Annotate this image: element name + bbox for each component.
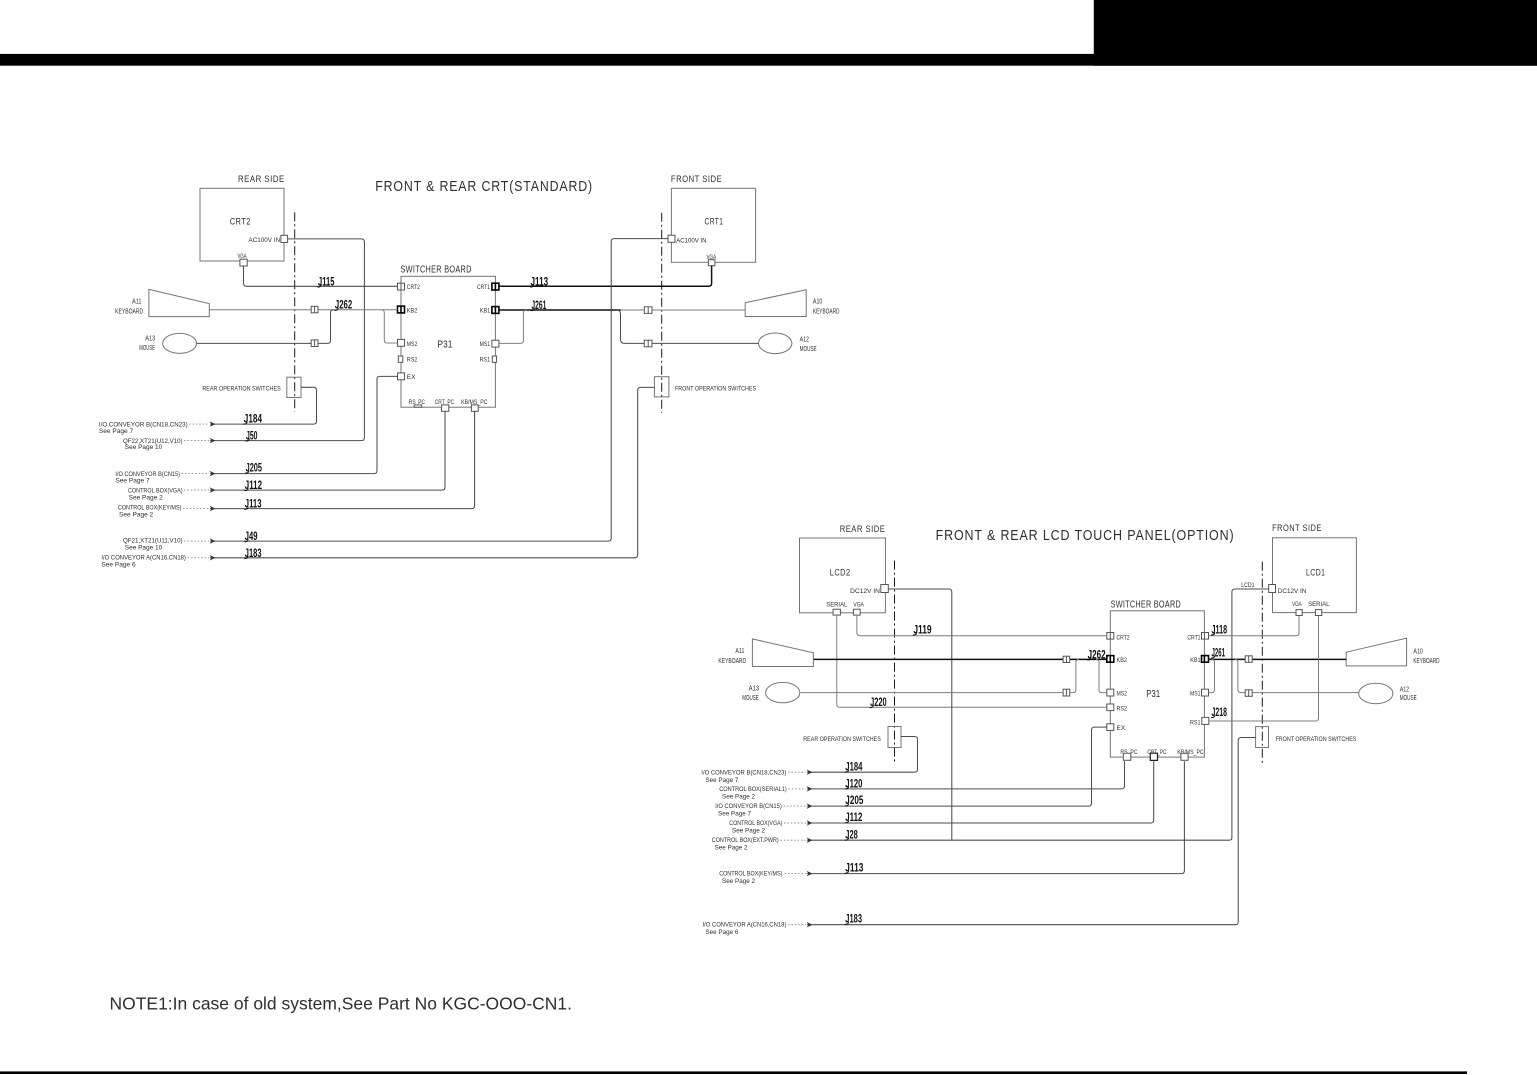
title block black band — [0, 54, 1537, 66]
svg-text:REAR OPERATION SWITCHES: REAR OPERATION SWITCHES — [803, 736, 881, 743]
svg-text:KEYBOARD: KEYBOARD — [813, 309, 840, 316]
boundary connector rear mouse — [1063, 689, 1070, 696]
pin connector MS2 — [1107, 689, 1114, 696]
svg-text:CONTROL BOX(KEY/MS): CONTROL BOX(KEY/MS) — [118, 504, 181, 511]
svg-text:See Page 2: See Page 2 — [732, 827, 765, 834]
svg-text:A11: A11 — [132, 299, 142, 306]
pin connector CRT1 — [1202, 633, 1209, 640]
svg-text:FRONT SIDE: FRONT SIDE — [1272, 523, 1322, 534]
svg-text:KEYBOARD: KEYBOARD — [1413, 658, 1439, 665]
pin connector EX — [1107, 724, 1114, 731]
svg-text:A10: A10 — [813, 299, 823, 306]
svg-text:See Page 7: See Page 7 — [705, 777, 738, 784]
svg-text:FRONT & REAR CRT(STANDARD): FRONT & REAR CRT(STANDARD) — [375, 179, 593, 195]
svg-text:QF21,XT21(U11,V10): QF21,XT21(U11,V10) — [123, 537, 183, 544]
wire J120 to RS_PC — [807, 761, 1125, 789]
row label QF22,XT21(U12,V10) See Page 10 — [123, 438, 209, 451]
chain line front boundary — [661, 213, 663, 413]
bottom frame line — [0, 1071, 1467, 1074]
svg-text:See Page 10: See Page 10 — [125, 444, 163, 451]
wire J261 switcher KB1 to keyboard A10 — [1209, 658, 1347, 660]
svg-text:MOUSE: MOUSE — [742, 695, 759, 702]
svg-text:AC100V IN: AC100V IN — [676, 238, 707, 245]
svg-text:CRT1: CRT1 — [705, 217, 724, 228]
svg-text:See Page 2: See Page 2 — [119, 511, 154, 518]
CRT1 connector AC100V IN — [668, 235, 675, 242]
pin connector RS_PC — [1123, 753, 1131, 760]
LCD1 connector SERIAL — [1315, 610, 1321, 616]
svg-text:SERIAL: SERIAL — [826, 602, 847, 609]
svg-text:See Page 2: See Page 2 — [715, 845, 748, 852]
CRT1 connector VGA — [708, 260, 715, 266]
pin connector RS1 — [1202, 717, 1209, 724]
svg-text:MS1: MS1 — [1190, 691, 1201, 698]
row label I/O CONVEYOR B(CN18,CN23) See Page 7 — [99, 421, 209, 435]
svg-text:CRT2: CRT2 — [230, 217, 251, 228]
LCD2 connector DC12V IN — [881, 585, 889, 593]
svg-text:CONTROL BOX(KEY/MS): CONTROL BOX(KEY/MS) — [719, 871, 782, 878]
row label CONTROL BOX(SERIAL1) See Page 2 — [719, 786, 806, 800]
pin connector CRT1 — [492, 283, 499, 290]
svg-text:P31: P31 — [1146, 688, 1160, 700]
row label QF21,XT21(U11,V10) See Page 10 — [123, 537, 209, 551]
mouse A12 — [759, 333, 792, 354]
rear operation switches box — [287, 377, 301, 397]
wire split to mouse A12 — [617, 310, 759, 343]
svg-text:See Page 6: See Page 6 — [705, 929, 738, 936]
monitor CRT1 box — [671, 188, 755, 262]
svg-text:CONTROL BOX(VGA): CONTROL BOX(VGA) — [128, 487, 183, 494]
wire J119 LCD2 VGA to switcher CRT2 — [857, 615, 1107, 636]
svg-text:FRONT OPERATION SWITCHES: FRONT OPERATION SWITCHES — [675, 386, 757, 393]
svg-text:A12: A12 — [1400, 687, 1409, 694]
pin connector MS1 — [1202, 689, 1209, 696]
svg-text:RS2: RS2 — [407, 357, 418, 364]
pin connector CRT_PC — [1150, 753, 1157, 760]
svg-text:AC100V IN: AC100V IN — [249, 237, 281, 244]
wire J205 to EX — [807, 727, 1107, 806]
wire J184 from rear operation switches — [210, 387, 317, 424]
svg-text:A13: A13 — [749, 686, 760, 693]
wire J28 row to LCD1 DC12V — [807, 589, 1269, 840]
svg-text:I/O CONVEYOR B(CN18,CN23): I/O CONVEYOR B(CN18,CN23) — [701, 769, 786, 776]
wire J113 to KB/MS_PC — [807, 761, 1184, 873]
wire J113 switcher CRT1 to CRT1 VGA — [499, 266, 712, 287]
pin connector KB2 — [398, 306, 405, 313]
wire J115 CRT2 VGA to switcher — [244, 266, 398, 286]
chain line front boundary — [1261, 562, 1263, 764]
CRT2 connector AC100V IN — [281, 235, 288, 242]
pin connector KB1 — [1202, 656, 1209, 663]
svg-text:KEYBOARD: KEYBOARD — [718, 658, 746, 665]
pin connector MS2 — [398, 339, 405, 346]
boundary connector front mouse — [644, 340, 652, 347]
wire mouse A12 branch — [1235, 659, 1359, 692]
title block black corner box — [1094, 0, 1537, 66]
svg-text:RS2: RS2 — [1117, 705, 1128, 712]
svg-text:CONTROL BOX(VGA): CONTROL BOX(VGA) — [729, 820, 782, 827]
svg-text:I/O CONVEYOR B(CN15): I/O CONVEYOR B(CN15) — [715, 803, 782, 810]
wire J205 from EX — [210, 376, 398, 473]
svg-text:RS1: RS1 — [1190, 720, 1201, 727]
boundary connector rear keyboard — [1063, 656, 1070, 662]
row label CONTROL BOX(VGA) See Page 2 — [729, 820, 806, 834]
svg-text:SWITCHER BOARD: SWITCHER BOARD — [401, 265, 472, 276]
keyboard A10 — [745, 290, 806, 317]
svg-text:MS1: MS1 — [480, 341, 491, 348]
wire J112 to CRT_PC — [807, 761, 1154, 823]
svg-text:CRT2: CRT2 — [407, 284, 420, 291]
wire J261 switcher KB1 to keyboard A10 — [499, 309, 621, 311]
arrowheads on rows — [807, 769, 813, 927]
svg-text:SERIAL: SERIAL — [1308, 601, 1330, 608]
svg-text:See Page 7: See Page 7 — [99, 428, 134, 435]
wire mouse A13 merge — [801, 659, 1079, 692]
svg-text:P31: P31 — [437, 339, 452, 351]
svg-text:A12: A12 — [800, 337, 809, 344]
wire split to MS2 — [381, 310, 397, 343]
chain line rear boundary — [894, 561, 896, 764]
svg-text:MOUSE: MOUSE — [1400, 695, 1417, 702]
LCD1 connector DC12V IN — [1269, 585, 1276, 593]
wire CRT2 AC100V IN down to J50 row — [210, 239, 364, 441]
svg-text:I/O CONVEYOR A(CN16,CN18): I/O CONVEYOR A(CN16,CN18) — [703, 922, 787, 929]
svg-text:See Page 2: See Page 2 — [722, 878, 755, 885]
wire J184 from rear operation switches — [807, 737, 918, 773]
row label CONTROL BOX(KEY/MS) See Page 2 — [118, 504, 209, 518]
svg-text:CRT2: CRT2 — [1117, 634, 1130, 641]
svg-text:SWITCHER BOARD: SWITCHER BOARD — [1111, 600, 1181, 611]
wire J112 from CRT_PC — [210, 411, 445, 490]
svg-text:MOUSE: MOUSE — [139, 345, 155, 352]
svg-text:KEYBOARD: KEYBOARD — [115, 308, 143, 315]
svg-text:A10: A10 — [1413, 648, 1423, 655]
row label CONTROL BOX(EXT.PWR) See Page 2 — [712, 837, 806, 851]
svg-text:See Page 10: See Page 10 — [125, 544, 163, 551]
svg-text:MOUSE: MOUSE — [800, 346, 817, 353]
wire J183 to front operation switches — [807, 738, 1256, 925]
keyboard A11 — [752, 639, 813, 667]
pin connector RS2 — [398, 356, 403, 362]
wire LCD2 DC12V branch down to J28 row — [888, 589, 952, 840]
row label I/O CONVEYOR B(CN15) See Page 7 — [115, 471, 209, 485]
svg-text:LCD1: LCD1 — [1306, 567, 1325, 578]
svg-text:See Page 7: See Page 7 — [718, 810, 751, 817]
monitor CRT2 box — [200, 188, 284, 261]
CRT2 connector VGA — [240, 259, 247, 266]
wire J49 to CRT1 AC100V IN — [210, 239, 668, 541]
LCD2 connector VGA — [853, 609, 860, 615]
svg-text:FRONT SIDE: FRONT SIDE — [671, 174, 722, 185]
svg-text:EX: EX — [1117, 725, 1126, 732]
svg-text:FRONT & REAR LCD TOUCH PANEL(O: FRONT & REAR LCD TOUCH PANEL(OPTION) — [936, 528, 1235, 544]
row label I/O CONVEYOR A(CN16,CN18) See Page 6 — [101, 555, 209, 569]
row label I/O CONVEYOR B(CN18,CN23) See Page 7 — [701, 769, 806, 784]
svg-text:REAR SIDE: REAR SIDE — [238, 174, 285, 185]
boundary connector rear keyboard — [311, 306, 318, 313]
svg-text:See Page 7: See Page 7 — [115, 478, 150, 485]
LCD2 connector SERIAL — [833, 609, 840, 615]
svg-text:KB1: KB1 — [480, 307, 491, 314]
svg-text:See Page 6: See Page 6 — [101, 561, 136, 568]
pin connector RS2 — [1107, 704, 1114, 711]
boundary connector rear mouse — [311, 340, 318, 347]
pin connector MS1 — [492, 340, 499, 347]
svg-text:CONTROL BOX(EXT.PWR): CONTROL BOX(EXT.PWR) — [712, 837, 779, 844]
svg-text:A13: A13 — [145, 335, 155, 342]
svg-text:See Page 2: See Page 2 — [722, 793, 755, 800]
svg-text:LCD1: LCD1 — [1241, 582, 1255, 589]
wire J113 from KB/MS_PC — [210, 411, 475, 509]
pin connector KB/MS_PC — [471, 405, 478, 411]
wire split to MS2 — [1096, 659, 1107, 692]
svg-text:VGA: VGA — [1292, 601, 1302, 608]
svg-text:REAR OPERATION SWITCHES: REAR OPERATION SWITCHES — [202, 386, 281, 393]
pin connector KB2 — [1107, 656, 1114, 663]
svg-text:MS2: MS2 — [1117, 691, 1128, 698]
svg-text:CONTROL BOX(SERIAL1): CONTROL BOX(SERIAL1) — [719, 786, 787, 793]
pin connector CRT2 — [398, 283, 405, 290]
mouse A13 — [163, 333, 197, 353]
svg-text:REAR SIDE: REAR SIDE — [840, 524, 886, 535]
panel LCD2 box — [800, 538, 886, 613]
wire MS1 branch — [1209, 659, 1215, 692]
keyboard A10 — [1346, 638, 1406, 666]
mouse A13 — [766, 682, 800, 702]
svg-text:FRONT OPERATION SWITCHES: FRONT OPERATION SWITCHES — [1276, 736, 1357, 743]
wire MS1 merge — [499, 310, 527, 343]
wire keyboard A11 to KB2 — [210, 309, 398, 311]
wire keyboard A11 to KB2 — [814, 658, 1107, 660]
svg-text:NOTE1:In case of old system,Se: NOTE1:In case of old system,See Part No … — [110, 994, 573, 1014]
svg-text:RS1: RS1 — [480, 357, 491, 364]
row label CONTROL BOX(VGA) See Page 2 — [128, 487, 209, 501]
svg-text:CRT1: CRT1 — [477, 284, 490, 291]
svg-text:KB1: KB1 — [1190, 657, 1201, 664]
front operation switches box — [1256, 727, 1269, 748]
svg-text:KB2: KB2 — [1117, 657, 1128, 664]
svg-text:DC12V IN: DC12V IN — [850, 588, 880, 595]
wire mouse A13 merge — [197, 310, 334, 344]
svg-text:CRT1: CRT1 — [1187, 634, 1200, 641]
front operation switches box — [654, 377, 669, 397]
svg-text:LCD2: LCD2 — [830, 568, 851, 579]
svg-text:VGA: VGA — [853, 602, 864, 609]
wire J118 switcher CRT1 to LCD1 VGA — [1209, 616, 1300, 636]
row label I/O CONVEYOR B(CN15) See Page 7 — [715, 803, 806, 817]
row label CONTROL BOX(KEY/MS) See Page 2 — [719, 871, 806, 885]
panel LCD1 box — [1273, 538, 1357, 613]
mouse A12 — [1359, 683, 1393, 703]
boundary connector front keyboard — [644, 307, 652, 314]
pin connector KB/MS_PC — [1181, 753, 1188, 760]
wire J183 to front operation switches — [210, 387, 654, 557]
svg-text:DC12V IN: DC12V IN — [1278, 588, 1307, 595]
svg-text:See Page 2: See Page 2 — [129, 495, 164, 502]
pin connector CRT2 — [1107, 633, 1114, 640]
wire J220 LCD2 SERIAL to RS2 — [837, 615, 1107, 707]
pin connector EX — [398, 373, 405, 380]
rear operation switches box — [888, 727, 901, 748]
pin connector CRT_PC — [442, 405, 449, 411]
svg-text:EX: EX — [407, 374, 416, 381]
wire J218 RS1 to LCD1 SERIAL — [1209, 616, 1319, 722]
boundary connector front mouse — [1245, 690, 1252, 697]
boundary connector front keyboard — [1245, 656, 1252, 663]
svg-text:KB2: KB2 — [407, 307, 418, 314]
arrowheads on rows — [210, 421, 216, 560]
svg-text:MS2: MS2 — [407, 341, 418, 348]
pin connector RS_PC — [414, 405, 422, 407]
LCD1 connector VGA — [1296, 610, 1302, 616]
pin connector RS1 — [492, 356, 496, 362]
row label I/O CONVEYOR A(CN16,CN18) See Page 6 — [703, 922, 807, 936]
keyboard A11 — [149, 289, 209, 316]
svg-text:A11: A11 — [735, 648, 744, 655]
pin connector KB1 — [492, 307, 499, 314]
chain line rear boundary — [294, 212, 296, 411]
